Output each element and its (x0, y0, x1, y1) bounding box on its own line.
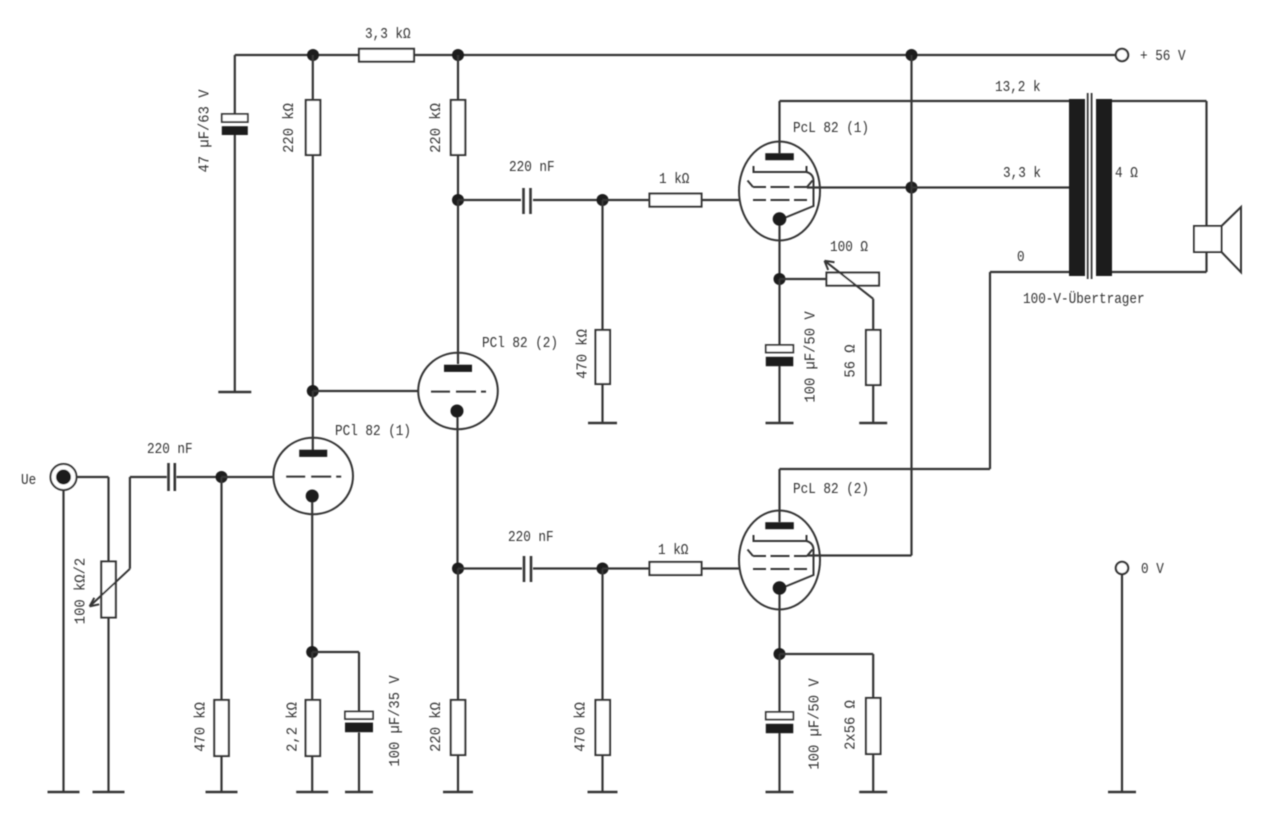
pentode PcL 82 (2) suppressor grid g3 (754, 535, 807, 541)
capacitor 220 nF lower plate2 (530, 556, 533, 582)
node coupling C (452, 563, 464, 575)
capacitor 47uF/63V minus plate (222, 126, 248, 135)
svg-text:100 µF/50 V: 100 µF/50 V (803, 311, 820, 402)
ground 100uF/35V (345, 791, 373, 793)
wire triode2 cathode lead (456, 418, 458, 569)
resistor 1 kOhm (pentode2 grid stopper) (650, 562, 702, 575)
svg-text:100 kΩ/2: 100 kΩ/2 (73, 558, 90, 624)
capacitor 100uF/50V (2) plus plate (766, 712, 794, 720)
resistor 470 kOhm (input grid leak) (214, 700, 229, 756)
wire node A to 220nF (458, 199, 521, 201)
wire trimmer to 56R (872, 299, 874, 330)
wire 470k lower to ground (601, 755, 603, 792)
wire cathode node to 100uF/35V (312, 651, 359, 653)
ground 220k bottom (443, 791, 473, 793)
svg-text:470 kΩ: 470 kΩ (193, 702, 210, 752)
wire node B to 470k (601, 200, 603, 330)
ground 470k input (206, 791, 238, 793)
resistor 220 kOhm (triode2 cathode load) (451, 700, 466, 755)
wire cathode to 2x56R (780, 653, 874, 655)
svg-text:PCl 82 (2): PCl 82 (2) (482, 335, 558, 352)
wire 56R to ground (872, 385, 874, 423)
ground 470k mid (588, 422, 617, 424)
ground jack (48, 791, 80, 793)
ground 2x56R (859, 791, 887, 793)
wire 0-tap riser (989, 272, 991, 469)
wire pentode1 screen to 3,3k tap (left) (807, 186, 912, 188)
pentode PcL 82 (1) suppressor grid g3 (754, 166, 807, 172)
wire 470k to ground (601, 384, 603, 423)
capacitor 47uF/63V plus plate (222, 114, 248, 122)
ground 100uF (1) (766, 422, 794, 424)
wire 0V down (1121, 575, 1123, 793)
pentode PcL 82 (1) g2 left spur (748, 181, 754, 188)
ground 56R (859, 422, 887, 424)
wire to 2,2k (311, 652, 313, 700)
wire pentode1 cathode lead (778, 226, 780, 280)
resistor 470 kOhm (pentode1 grid leak) (596, 330, 611, 384)
svg-text:220 nF: 220 nF (508, 529, 554, 546)
triode PCl 82 (2) control grid (431, 391, 486, 393)
wire 1k to pentode2 grid (702, 567, 741, 569)
ground 2,2k (296, 791, 328, 793)
potentiometer wiper arrow (90, 569, 130, 607)
wire node D to 1k lower (603, 567, 650, 569)
node triode1 anode / triode2 grid (307, 385, 319, 397)
transformer core line 1 (1087, 93, 1089, 279)
svg-text:1 kΩ: 1 kΩ (658, 542, 688, 559)
svg-text:13,2 k: 13,2 k (995, 79, 1041, 96)
svg-text:1 kΩ: 1 kΩ (659, 171, 689, 188)
ground 100uF (2) (766, 791, 794, 793)
wire 220k to triode1 anode node (312, 155, 314, 391)
terminal 0 V (1116, 562, 1128, 574)
pentode PcL 82 (2) screen grid g2 (753, 555, 807, 557)
wire +56V rail left segment (235, 54, 359, 56)
wire jack sleeve to ground (62, 490, 64, 792)
wire pentode1 anode to 13,2k tap (780, 100, 1070, 102)
wire pentode2 screen run (807, 554, 912, 556)
svg-text:220 nF: 220 nF (147, 441, 193, 458)
svg-text:2x56 Ω: 2x56 Ω (843, 700, 860, 750)
node pentode1 cathode net (774, 273, 786, 285)
wire triode1 cathode lead (311, 502, 313, 652)
wire 2x56R to ground (872, 754, 874, 792)
wire 100uF(2) to ground (778, 733, 780, 792)
wire 0-tap horizontal (990, 271, 1069, 273)
wire cathode node to 100uF (778, 279, 780, 345)
svg-text:2,2 kΩ: 2,2 kΩ (285, 702, 302, 752)
wire pot bottom to ground (107, 618, 109, 793)
svg-text:100-V-Übertrager: 100-V-Übertrager (1023, 290, 1145, 308)
wire 220nF to node D (533, 567, 603, 569)
wire 47uF to ground (234, 135, 236, 392)
pentode PcL 82 (1) g3-to-cathode hook (786, 172, 814, 218)
node pentode2 cathode net (774, 648, 786, 660)
wire secondary top drop (1205, 101, 1207, 226)
capacitor 220 nF upper plate1 (522, 188, 525, 214)
resistor 3,3 kOhm (rail dropper) (359, 49, 414, 62)
node rail-B junction (452, 49, 464, 61)
tube triode PCl 82 (2) envelope (418, 353, 498, 429)
wire pentode2 anode run (780, 468, 991, 470)
svg-text:100 µF/50 V: 100 µF/50 V (807, 678, 824, 769)
node rail-C junction (906, 49, 918, 61)
pentode PcL 82 (1) screen grid g2 (753, 186, 807, 188)
node coupling D (597, 563, 609, 575)
wire 2,2k to ground (311, 756, 313, 792)
transformer secondary winding bar (1096, 99, 1112, 276)
wire pentode2 anode lead (778, 469, 780, 522)
triode PCl 82 (2) cathode (451, 405, 464, 418)
node screen/B+ junction (906, 182, 918, 194)
svg-text:220 kΩ: 220 kΩ (281, 103, 298, 153)
capacitor 100uF/50V (1) plus plate (766, 345, 794, 353)
triode PCl 82 (1) control grid (286, 476, 341, 478)
pentode PcL 82 (2) anode plate (765, 522, 794, 529)
wire node B to 1k (603, 199, 650, 201)
pentode PcL 82 (1) g2 right spur (807, 181, 813, 188)
wire B+ vertical to pentode2 screen (910, 55, 912, 556)
svg-text:PcL 82 (2): PcL 82 (2) (793, 481, 869, 498)
resistor 2,2 kOhm (306, 700, 321, 756)
wire rail to 47uF (234, 55, 236, 114)
wire wiper to 220nF input (130, 476, 167, 478)
wire jack to pot (77, 476, 109, 478)
pentode PcL 82 (2) control grid g1 (753, 568, 807, 570)
tube pentode PcL 82 (1) envelope (739, 142, 820, 241)
wire node C to 220nF lower (458, 567, 522, 569)
wire anode lead triode1 (312, 391, 314, 450)
pentode PcL 82 (2) g2 left spur (748, 550, 754, 557)
tube pentode PcL 82 (2) envelope (739, 511, 820, 610)
wire secondary bottom (1112, 271, 1207, 273)
node rail-A junction (307, 49, 319, 61)
wire +56V rail right segment (414, 54, 1116, 56)
svg-text:0: 0 (1017, 249, 1025, 266)
wire 470k to ground (220, 756, 222, 792)
capacitor 220 nF lower plate1 (523, 556, 526, 582)
svg-text:3,3 kΩ: 3,3 kΩ (365, 26, 411, 43)
svg-text:PCl 82 (1): PCl 82 (1) (335, 423, 411, 440)
capacitor 100uF/35V minus plate (345, 723, 373, 733)
input jack Ue (51, 464, 77, 490)
svg-text:56 Ω: 56 Ω (843, 344, 860, 377)
capacitor 220 nF input plate1 (167, 463, 170, 491)
pentode PcL 82 (2) cathode (773, 581, 787, 595)
resistor 56 Ohm (866, 330, 881, 385)
wire 220nF to node B (533, 199, 603, 201)
svg-text:0 V: 0 V (1141, 561, 1164, 578)
resistor 470 kOhm (pentode2 grid leak) (596, 700, 611, 755)
svg-text:220 kΩ: 220 kΩ (428, 103, 445, 153)
transformer primary winding bar (1069, 99, 1085, 276)
svg-text:+ 56 V: + 56 V (1140, 48, 1186, 65)
wire rail to 220k left (312, 55, 314, 100)
wire pot top lead (107, 477, 109, 562)
resistor 1 kOhm (pentode1 grid stopper) (650, 194, 702, 207)
wire 220k bottom to ground (457, 755, 459, 792)
pentode PcL 82 (1) anode plate (765, 153, 794, 160)
svg-text:PcL 82 (1): PcL 82 (1) (793, 120, 869, 137)
wire down to 100uF/35V (358, 652, 360, 712)
pentode PcL 82 (1) cathode (773, 212, 787, 226)
node coupling A (452, 194, 464, 206)
triode PCl 82 (1) cathode (306, 490, 319, 503)
svg-text:3,3 k: 3,3 k (1003, 165, 1041, 182)
speaker box (1194, 226, 1222, 252)
wire secondary bottom rise (1205, 252, 1207, 272)
node coupling B (597, 194, 609, 206)
wire down to 2x56R (872, 654, 874, 698)
wire wiper riser (129, 477, 131, 569)
wire cathode node to 100uF (2) (778, 654, 780, 712)
ground pot (93, 791, 125, 793)
wire rail to 220k mid (457, 55, 459, 100)
wire grid node to 470k input (220, 477, 222, 700)
node triode1 cathode net (306, 646, 318, 658)
ground 0V (1108, 791, 1136, 793)
svg-text:100 µF/35 V: 100 µF/35 V (387, 675, 404, 766)
resistor 2x56 Ohm (866, 698, 881, 754)
terminal +56 V (1116, 49, 1128, 61)
wire cathode to 100R trimmer (780, 278, 827, 280)
capacitor 220 nF input plate2 (174, 463, 177, 491)
wire pentode1 anode lead (778, 101, 780, 154)
wire node D to 470k lower (601, 569, 603, 701)
ground 47uF (218, 391, 251, 393)
wire pentode2 cathode lead (778, 595, 780, 655)
wire grid node to triode1 (222, 476, 275, 478)
wire secondary top (1112, 100, 1207, 102)
trimmer 100 Ohm (827, 273, 880, 286)
transformer core line 2 (1091, 93, 1093, 279)
triode PCl 82 (1) anode plate (299, 450, 327, 457)
resistor 220 kOhm (triode1 anode load) (306, 100, 321, 155)
svg-text:4 Ω: 4 Ω (1115, 165, 1138, 182)
svg-text:470 kΩ: 470 kΩ (575, 329, 592, 379)
tube triode PCl 82 (1) envelope (273, 438, 353, 514)
wire 1k to pentode1 grid (702, 199, 741, 201)
pentode PcL 82 (2) g3-to-cathode hook (786, 541, 814, 587)
ground 470k lower (588, 791, 618, 793)
svg-text:220 kΩ: 220 kΩ (428, 702, 445, 752)
triode PCl 82 (2) anode plate (444, 365, 472, 372)
wire 100uF/35V to ground (358, 733, 360, 793)
pentode PcL 82 (1) control grid g1 (753, 199, 807, 201)
svg-text:470 kΩ: 470 kΩ (573, 702, 590, 752)
node triode1 grid (216, 471, 228, 483)
trimmer wiper arrow (825, 261, 874, 299)
wire node C to 220k bottom (457, 569, 459, 701)
potentiometer 100 kOhm/2 (101, 562, 116, 618)
wire triode1 anode to triode2 grid (313, 390, 419, 392)
speaker horn (1222, 207, 1242, 272)
wire 220nF to grid node (177, 476, 222, 478)
capacitor 100uF/50V (2) minus plate (766, 724, 794, 733)
capacitor 100uF/35V plus plate (345, 712, 373, 720)
svg-text:220 nF: 220 nF (509, 159, 555, 176)
capacitor 100uF/50V (1) minus plate (766, 357, 794, 366)
svg-text:100 Ω: 100 Ω (830, 239, 868, 256)
pentode PcL 82 (2) g2 right spur (807, 550, 813, 557)
capacitor 220 nF upper plate2 (529, 188, 532, 214)
wire 220k to coupling node A (457, 155, 459, 200)
wire 100uF to ground (778, 366, 780, 423)
wire node to 3,3k tap (912, 186, 1070, 188)
wire anode lead triode2 (457, 200, 459, 364)
svg-text:Ue: Ue (21, 472, 36, 489)
svg-text:47 µF/63 V: 47 µF/63 V (197, 90, 214, 173)
resistor 220 kOhm (triode2 anode load) (451, 100, 466, 155)
